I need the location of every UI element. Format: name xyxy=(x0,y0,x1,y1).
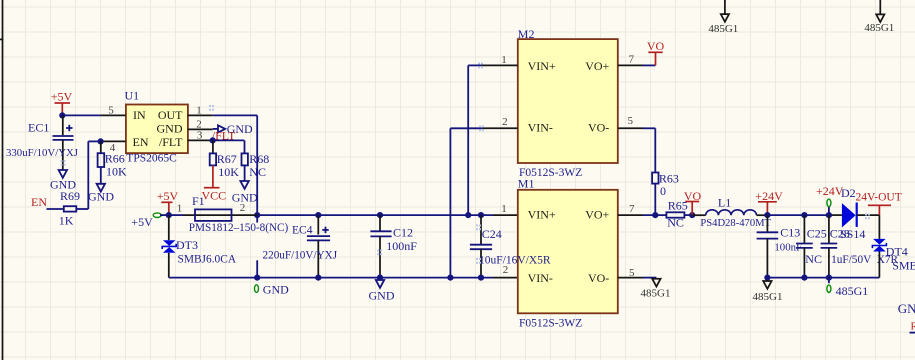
svg-text:220uF/10V/YXJ: 220uF/10V/YXJ xyxy=(263,250,338,262)
port oval GND xyxy=(255,285,259,293)
pin 5 IN xyxy=(101,114,126,116)
op-amp U1 TPS2065C body xyxy=(126,105,188,154)
fuse F1 xyxy=(169,214,183,216)
svg-text:1: 1 xyxy=(196,104,202,116)
capacitor EC1 xyxy=(62,115,64,135)
resistor R68 xyxy=(242,153,248,165)
svg-text:EN: EN xyxy=(133,135,149,149)
junction +5V node xyxy=(59,112,65,118)
svg-text:R6: R6 xyxy=(911,320,915,332)
svg-text:2: 2 xyxy=(240,202,246,214)
wire clipped bottom right xyxy=(910,332,915,334)
svg-text:5: 5 xyxy=(629,267,635,279)
resistor R67 xyxy=(212,140,214,153)
svg-text:100nF: 100nF xyxy=(386,239,417,253)
pin 7 VO+ of M1 xyxy=(618,214,643,216)
svg-text:VIN-: VIN- xyxy=(528,271,553,285)
svg-text:1: 1 xyxy=(177,202,183,214)
capacitor C25 xyxy=(801,212,807,218)
svg-text:L1: L1 xyxy=(718,195,731,209)
svg-text:10uF/16V/X5R: 10uF/16V/X5R xyxy=(479,255,551,267)
power port VO at output xyxy=(691,202,693,216)
svg-text:GND: GND xyxy=(88,189,114,203)
svg-text:485G1: 485G1 xyxy=(753,291,783,303)
ground 485G1 at M1 pin 5 xyxy=(652,279,660,287)
pin 1 VIN+ of M2 xyxy=(481,64,518,66)
svg-text:VIN-: VIN- xyxy=(528,121,553,135)
power port 24V-OUT xyxy=(878,205,880,215)
svg-text:485G1: 485G1 xyxy=(641,288,671,300)
capacitor C24 xyxy=(478,212,484,218)
svg-text:10K: 10K xyxy=(218,165,239,179)
svg-text:R67: R67 xyxy=(217,152,237,166)
pin 4 EN xyxy=(101,140,126,142)
svg-text:C25: C25 xyxy=(807,226,827,240)
module M2 F0512S-3WZ body xyxy=(518,39,618,163)
pin 2 GND xyxy=(188,128,213,130)
svg-text:M2: M2 xyxy=(518,27,535,41)
junction +24V node xyxy=(764,212,770,218)
svg-text:NC: NC xyxy=(667,216,684,230)
pin 3 /FLT xyxy=(188,139,213,141)
port oval 485G1 label xyxy=(827,285,831,293)
svg-text:VO: VO xyxy=(647,39,665,53)
svg-text:330uF/10V/YXJ: 330uF/10V/YXJ xyxy=(6,147,78,159)
capacitor C28 xyxy=(826,212,832,218)
svg-text:GND: GND xyxy=(898,301,915,316)
svg-text:1: 1 xyxy=(501,203,507,215)
svg-text:R68: R68 xyxy=(249,152,269,166)
diode D2 SS14 xyxy=(842,203,856,227)
svg-text:EC1: EC1 xyxy=(28,121,49,135)
svg-text:VO+: VO+ xyxy=(585,59,609,73)
svg-text:VO-: VO- xyxy=(588,121,609,135)
power port +24V xyxy=(766,202,768,215)
resistor R63 xyxy=(654,128,656,172)
pin 2 VIN- of M2 xyxy=(482,127,518,129)
diode DT3 TVS xyxy=(168,215,170,240)
ground GND under C12 xyxy=(379,278,381,280)
svg-text:VCC: VCC xyxy=(202,189,227,203)
sheet border xyxy=(2,0,4,360)
wire U1 OUT down to +5V rail xyxy=(213,114,258,116)
svg-text:U1: U1 xyxy=(125,88,140,102)
svg-text:DT3: DT3 xyxy=(176,238,198,252)
junction M2 VIN- rail xyxy=(447,275,453,281)
pin 1 OUT xyxy=(188,114,213,116)
junction M2 VIN+ rail xyxy=(465,212,471,218)
svg-text:+5V: +5V xyxy=(157,189,179,203)
junction +5V rail node xyxy=(166,212,172,218)
svg-text:GND: GND xyxy=(263,282,289,296)
junction R63 rail xyxy=(652,212,658,218)
svg-text:SMBJ6.0CA: SMBJ6.0CA xyxy=(178,254,237,266)
svg-text:PMS1812–150-8(NC): PMS1812–150-8(NC) xyxy=(189,222,289,234)
svg-text:2: 2 xyxy=(502,116,508,128)
svg-text:VO: VO xyxy=(684,189,702,203)
svg-text:7: 7 xyxy=(629,203,635,215)
wire stub below junction xyxy=(256,215,258,223)
power port GND at U1 pin 2 xyxy=(213,128,218,130)
svg-text:0: 0 xyxy=(660,184,666,198)
ground 485G1 top right xyxy=(879,0,881,14)
svg-text:VO-: VO- xyxy=(588,271,609,285)
pin 7 VO+ of M2 xyxy=(618,64,643,66)
junction VO node xyxy=(689,212,695,218)
svg-text:F0512S-3WZ: F0512S-3WZ xyxy=(519,318,582,330)
wire oval to +5V junction xyxy=(160,214,169,216)
svg-text:VO+: VO+ xyxy=(585,208,609,222)
wire M2 VIN+ down to +5V rail xyxy=(467,65,469,215)
wire stub above GND junction xyxy=(256,260,258,277)
ground GND under R66 xyxy=(97,184,105,192)
inductor L1 xyxy=(692,214,706,216)
svg-text:DT4: DT4 xyxy=(886,244,908,258)
junction markers (off-grid dots) xyxy=(478,63,483,69)
module M1 F0512S-3WZ body xyxy=(518,190,618,313)
wire +5V node to U1 pin 5 xyxy=(62,114,100,116)
svg-text:3: 3 xyxy=(197,130,203,142)
wire M2 VIN- down to GND rail xyxy=(449,128,451,277)
svg-text:C13: C13 xyxy=(780,225,800,239)
svg-text:IN: IN xyxy=(133,108,146,122)
wire GND rail xyxy=(169,277,493,279)
svg-text:5: 5 xyxy=(628,115,634,127)
svg-text:1K: 1K xyxy=(59,214,74,228)
svg-text:10K: 10K xyxy=(106,164,127,178)
junction GND label node xyxy=(254,275,260,281)
ground GND under EC1 xyxy=(59,170,67,178)
wire EN to R69 xyxy=(47,208,64,210)
pin 5 VO- of M1 xyxy=(618,277,643,279)
power port VO at M2 pin 7 xyxy=(655,52,657,65)
svg-text:EC4: EC4 xyxy=(292,225,313,237)
svg-text:PS4D28-470MT: PS4D28-470MT xyxy=(700,218,771,229)
capacitor C12 xyxy=(377,212,383,218)
svg-text:SS14: SS14 xyxy=(840,227,865,241)
svg-text:485G1: 485G1 xyxy=(708,23,738,35)
svg-text:1: 1 xyxy=(501,54,507,66)
svg-text:485G1: 485G1 xyxy=(864,22,894,34)
svg-text:+5V: +5V xyxy=(131,215,153,229)
wire +5V rail xyxy=(257,214,468,216)
wire pin3 to R68 xyxy=(213,139,245,141)
svg-text:GND: GND xyxy=(157,122,183,136)
power port VCC under R67 xyxy=(212,165,214,187)
resistor R69 xyxy=(64,206,77,211)
port oval +24V label xyxy=(827,199,831,207)
junction OUT rail xyxy=(254,212,260,218)
ground 485G1 top left xyxy=(724,0,726,14)
ground GND under R68 xyxy=(240,181,248,189)
svg-text:GND: GND xyxy=(369,288,395,302)
svg-text:1uF/50V: 1uF/50V xyxy=(831,254,872,266)
svg-text:VIN+: VIN+ xyxy=(528,208,556,222)
svg-text:24V-OUT: 24V-OUT xyxy=(856,191,902,203)
svg-text:/FLT: /FLT xyxy=(159,135,183,149)
svg-text:TPS2065C: TPS2065C xyxy=(126,153,177,165)
svg-text:OUT: OUT xyxy=(158,108,183,122)
ground 485G1 under C13 xyxy=(766,278,768,281)
diode DT4 TVS xyxy=(878,215,880,239)
svg-text:2: 2 xyxy=(196,118,202,130)
svg-text:+24V: +24V xyxy=(816,184,844,198)
capacitor C13 xyxy=(766,215,768,232)
resistor R65 xyxy=(643,214,666,216)
svg-text:+5V: +5V xyxy=(51,90,73,104)
pin 5 VO- of M2 xyxy=(618,127,643,129)
svg-text:5: 5 xyxy=(108,104,114,116)
svg-text:F1: F1 xyxy=(192,194,205,208)
svg-text:485G1: 485G1 xyxy=(836,284,869,298)
wire +24V rail xyxy=(767,214,829,216)
svg-text:SMBJ6.0CA: SMBJ6.0CA xyxy=(892,258,915,272)
svg-text:+24V: +24V xyxy=(755,189,783,203)
svg-text:C12: C12 xyxy=(393,225,413,239)
svg-text:7: 7 xyxy=(629,53,635,65)
svg-text:D2: D2 xyxy=(841,186,856,200)
svg-text:R69: R69 xyxy=(60,189,80,203)
svg-text:NC: NC xyxy=(805,252,822,266)
junction U1 pin 3 node xyxy=(210,137,216,143)
wire R69 up to U1 pin 4 xyxy=(76,208,88,210)
svg-text:EN: EN xyxy=(31,195,47,209)
svg-text:M1: M1 xyxy=(518,177,535,191)
svg-text:C24: C24 xyxy=(482,227,502,241)
capacitor EC4 xyxy=(315,212,321,218)
svg-text:VIN+: VIN+ xyxy=(528,59,556,73)
port oval +5V xyxy=(153,213,161,218)
resistor R66 xyxy=(100,141,102,153)
junction U1 pin 4 node xyxy=(98,138,104,144)
wire GND rail right xyxy=(767,277,879,279)
